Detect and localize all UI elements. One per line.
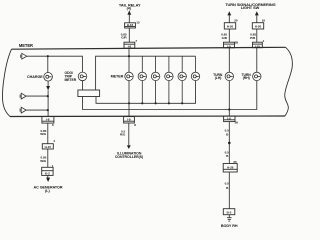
connector I-8 bottom middle	[124, 117, 135, 123]
arrow to illumination controller	[127, 145, 131, 149]
wire 0.85 G/B	[228, 29, 230, 42]
svg-text:CONTROLLER(S): CONTROLLER(S)	[115, 155, 143, 159]
wire charge lamp to diode	[47, 81, 49, 86]
node junction turn ground	[228, 108, 230, 110]
node junction charge drop	[47, 55, 49, 57]
arrow to turn signal sw LH	[227, 11, 231, 15]
wire 0.5 R/G	[128, 123, 130, 146]
wire lamp1 bottom	[128, 81, 130, 104]
svg-text:H-15: H-15	[45, 145, 52, 149]
wire turn LH drop into meter	[228, 48, 230, 72]
node junction lamp5 on bus A	[181, 102, 183, 104]
wire tail relay feed upper	[128, 15, 130, 23]
connector H-16	[125, 23, 136, 28]
wire to AC generator	[47, 175, 49, 178]
lamp: meter illumination 3	[151, 56, 159, 103]
meter box right torn edge	[285, 47, 293, 116]
svg-text:I-9: I-9	[227, 116, 231, 120]
wire triangle3 to generator line	[26, 109, 48, 111]
svg-text:H-20: H-20	[227, 25, 234, 29]
node: gauge feed triangle 2	[20, 93, 26, 99]
svg-text:CHARGE: CHARGE	[27, 75, 43, 79]
arrow to tail relay	[127, 10, 131, 14]
wire top bus left (feed)	[27, 56, 83, 72]
wire module riser to lamp bus	[96, 56, 196, 90]
svg-text:H-20: H-20	[255, 25, 262, 29]
node junction lamp2 on bus A	[141, 102, 143, 104]
wire generator line inside meter	[47, 90, 49, 116]
connector H-15	[42, 144, 53, 149]
lamp: odo/trip meter illumination	[78, 72, 87, 81]
svg-text:METER: METER	[65, 78, 77, 82]
svg-text:W/G: W/G	[40, 132, 47, 136]
wire odo lamp to module	[82, 81, 84, 90]
svg-text:G/B: G/B	[222, 36, 228, 40]
node junction lamp3 on bus A	[155, 102, 157, 104]
lamp: meter illumination 2	[138, 56, 146, 103]
diode arrow (current direction)	[46, 86, 50, 90]
wire 0.5 B upper	[228, 122, 230, 143]
svg-text:26: 26	[235, 121, 239, 125]
wire turn RH drop into meter	[256, 48, 258, 72]
wire turn RH upper	[256, 15, 258, 23]
svg-text:B-2: B-2	[227, 210, 232, 214]
wire module to illumination bus A	[96, 81, 196, 104]
svg-text:I-10: I-10	[255, 44, 260, 48]
wire 0.85 W/G upper	[47, 123, 49, 144]
wire turn LH upper	[228, 15, 230, 23]
wire illumination exit drop	[128, 103, 130, 116]
meter box top border	[12, 47, 286, 49]
connector B-2	[223, 209, 235, 215]
connector K-2	[42, 167, 53, 175]
svg-text:28: 28	[235, 40, 239, 44]
svg-text:W/G: W/G	[40, 159, 47, 163]
lamp: turn RH indicator	[253, 72, 261, 80]
svg-text:METER: METER	[111, 75, 124, 79]
wire 0.5 B lower	[228, 172, 230, 209]
svg-text:R/G: R/G	[120, 133, 126, 137]
node junction tri2	[47, 95, 49, 97]
connector I-9 top	[224, 42, 235, 48]
wire 0.5 B middle	[228, 143, 230, 164]
svg-text:I-8: I-8	[127, 118, 131, 122]
svg-text:I-8: I-8	[46, 118, 50, 122]
arrow to AC generator	[46, 178, 50, 182]
wire I-6 drop into meter	[128, 48, 130, 72]
meter box left torn edge	[2, 49, 11, 116]
svg-text:G/R: G/R	[121, 36, 127, 40]
lamp: charge warning	[44, 73, 53, 82]
lamp: turn LH indicator	[225, 72, 233, 80]
svg-text:0.5: 0.5	[225, 181, 229, 185]
wire triangle2 to generator line	[26, 95, 48, 97]
svg-text:(LH): (LH)	[215, 76, 222, 80]
wire module to ground bus B	[83, 81, 257, 110]
wire 0.85 W/G lower	[47, 149, 49, 167]
svg-text:METER: METER	[19, 43, 33, 48]
connector I-8 bottom left	[42, 117, 54, 124]
connector I-10 top	[253, 42, 263, 48]
connector I-9 bottom right	[224, 116, 235, 122]
ground symbol body RH	[227, 215, 232, 221]
svg-text:LIGHT SW: LIGHT SW	[241, 5, 260, 10]
svg-text:H-16: H-16	[127, 23, 134, 27]
meter box bottom border	[10, 115, 285, 118]
arrow to turn signal sw RH	[255, 11, 259, 15]
svg-text:(RH): (RH)	[243, 76, 250, 80]
connector I-6	[124, 42, 135, 48]
node junction lamp1 on bus A	[128, 102, 130, 104]
odo/trip meter module block	[78, 90, 100, 97]
wire charge lamp drop	[47, 56, 49, 72]
wire turn LH lamp to ground bus	[228, 81, 230, 117]
node junction I-6 drop on bus	[128, 55, 130, 57]
node junction lamp4 on bus A	[168, 102, 170, 104]
svg-text:P/B: P/B	[250, 36, 256, 40]
node junction tri3	[47, 109, 49, 111]
svg-text:19: 19	[262, 18, 266, 22]
wire 0.85 P/B	[256, 29, 258, 42]
lamp: meter illumination 6	[191, 56, 199, 80]
node: IG feed triangle	[21, 53, 27, 59]
node: gauge feed triangle 3	[20, 107, 26, 113]
lamp: meter illumination 5	[178, 56, 186, 103]
connector H-26	[223, 164, 237, 173]
lamp: meter illumination 1	[125, 72, 133, 80]
svg-text:I-6: I-6	[128, 45, 132, 49]
connector H-20 LH	[224, 23, 235, 29]
connector H-20 RH	[252, 23, 263, 29]
node splice on ground wire	[228, 142, 231, 145]
lamp: meter illumination 4	[165, 56, 173, 103]
svg-text:BODY RH: BODY RH	[221, 224, 238, 228]
svg-text:13: 13	[136, 20, 140, 24]
svg-text:K-2: K-2	[45, 172, 50, 176]
svg-text:20: 20	[234, 18, 238, 22]
svg-text:H-26: H-26	[227, 165, 234, 169]
wire 0.85 G/R	[128, 28, 130, 42]
